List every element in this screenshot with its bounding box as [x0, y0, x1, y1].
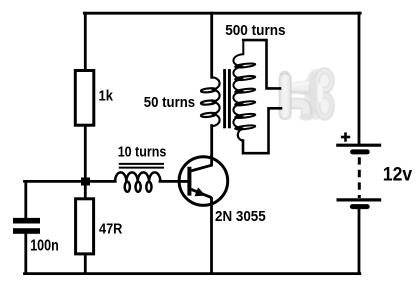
- svg-text:1k: 1k: [99, 87, 114, 104]
- svg-text:10 turns: 10 turns: [118, 143, 167, 160]
- svg-text:47R: 47R: [99, 221, 123, 238]
- svg-text:500 turns: 500 turns: [225, 23, 285, 39]
- svg-text:12v: 12v: [383, 164, 413, 186]
- svg-text:100n: 100n: [30, 237, 59, 254]
- svg-text:50 turns: 50 turns: [144, 94, 195, 111]
- svg-text:2N 3055: 2N 3055: [215, 208, 266, 225]
